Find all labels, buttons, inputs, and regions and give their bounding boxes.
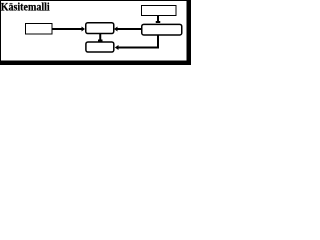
frame left border bbox=[0, 0, 1, 61]
frame top border bbox=[0, 0, 191, 1]
arrowhead into B bbox=[114, 27, 118, 32]
frame bottom shadow band bbox=[0, 60, 191, 65]
arrowhead into B bbox=[82, 27, 86, 32]
box C (lower rounded rectangle) bbox=[86, 42, 114, 52]
wire E to B bbox=[114, 27, 141, 32]
arrowhead into C bbox=[115, 45, 119, 50]
wire B to C bbox=[98, 34, 103, 42]
box D (top right rectangle) bbox=[142, 6, 177, 16]
svg-text:Käsitemalli: Käsitemalli bbox=[1, 0, 51, 14]
box E (right rounded rectangle) bbox=[142, 24, 182, 35]
tee terminator at E bbox=[156, 21, 161, 23]
box B (center rounded rectangle) bbox=[86, 23, 114, 34]
wire A to B bbox=[52, 27, 85, 32]
box A (left rectangle) bbox=[26, 24, 53, 35]
wire D to E bbox=[156, 16, 161, 23]
tee terminator at C bbox=[98, 40, 103, 42]
frame right shadow band bbox=[187, 0, 192, 65]
wire E to C (down then left) bbox=[115, 36, 158, 51]
